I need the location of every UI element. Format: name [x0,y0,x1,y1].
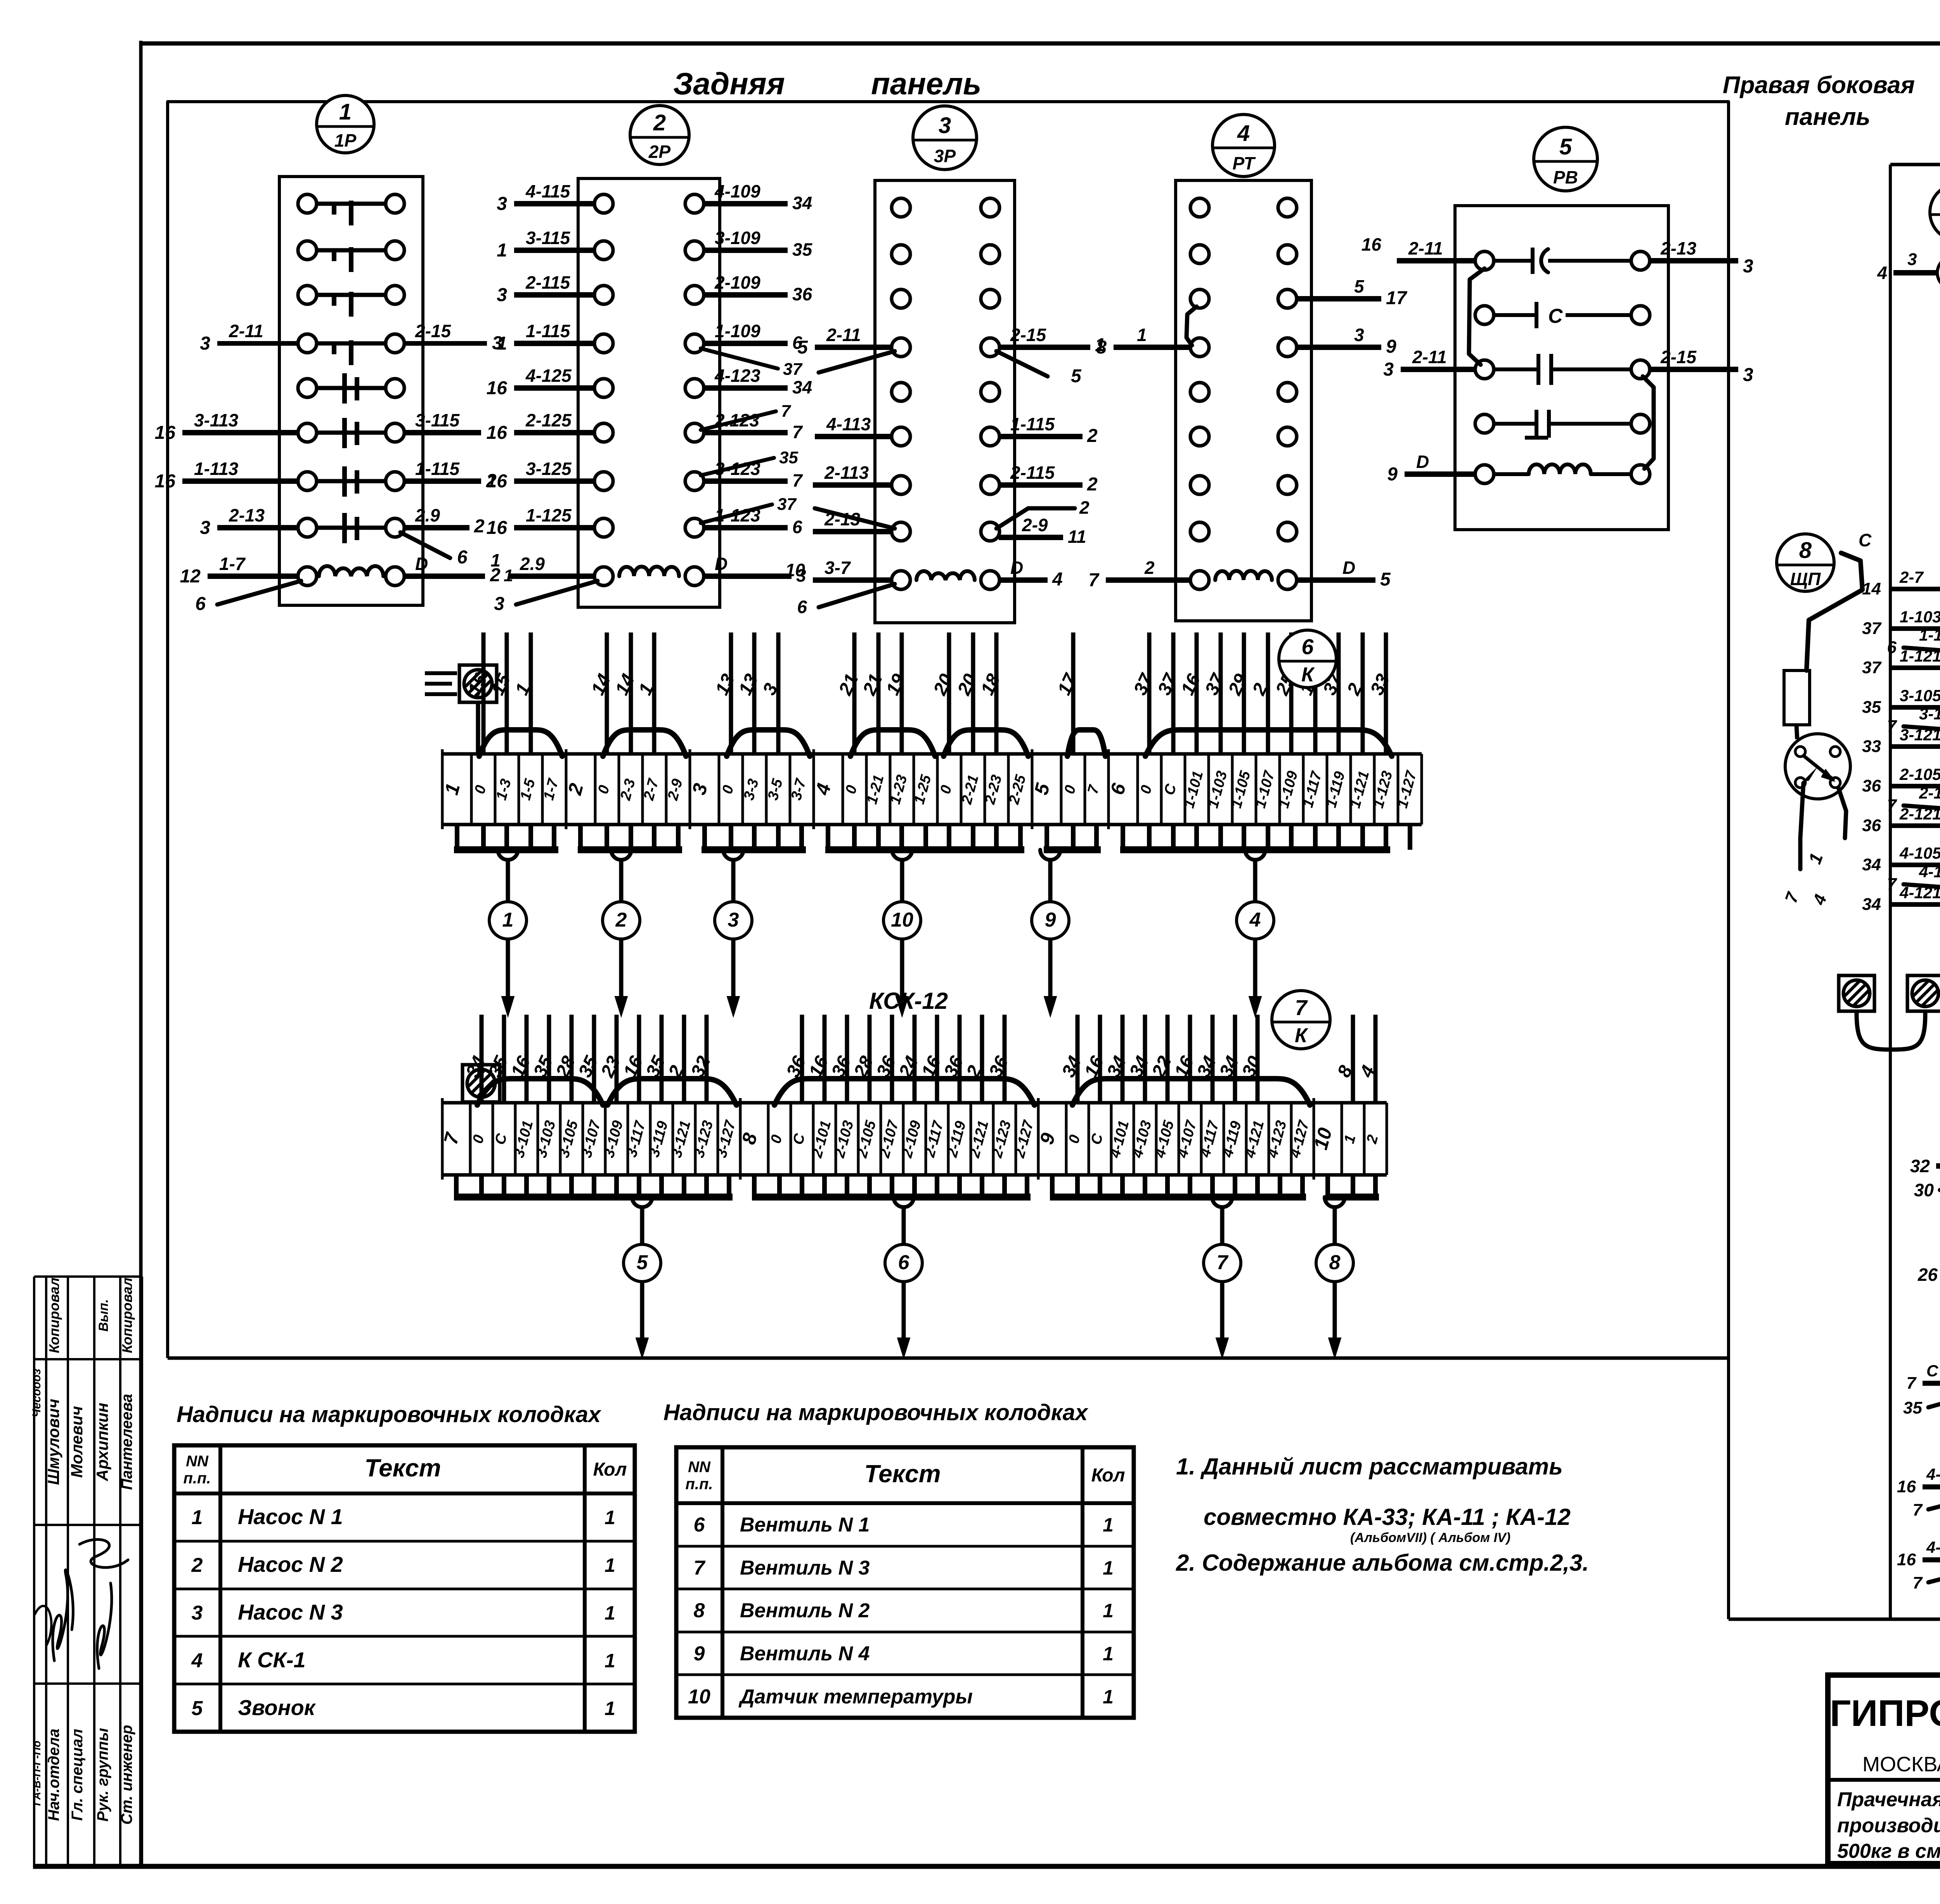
svg-text:Вентиль N 1: Вентиль N 1 [740,1514,870,1536]
svg-text:3: 3 [1907,250,1917,269]
svg-text:К: К [1295,1024,1308,1047]
svg-text:34: 34 [792,193,812,213]
svg-text:Гл. специал: Гл. специал [69,1729,86,1821]
svg-text:1: 1 [502,909,514,931]
svg-text:Задняя: Задняя [673,66,785,101]
svg-text:6: 6 [1887,638,1897,657]
svg-text:32: 32 [1910,1156,1930,1176]
svg-text:4-105: 4-105 [1899,844,1940,862]
svg-text:11: 11 [1068,527,1086,547]
svg-text:3: 3 [1743,365,1753,385]
svg-text:4: 4 [1877,263,1887,283]
svg-text:35: 35 [792,239,813,260]
svg-text:34: 34 [1862,895,1881,914]
svg-text:16: 16 [487,378,508,398]
svg-text:Прачечная спецодежды.: Прачечная спецодежды. [1837,1788,1940,1811]
svg-text:4: 4 [1052,569,1063,590]
svg-text:16: 16 [155,423,176,443]
svg-text:2-13: 2-13 [1660,238,1696,258]
svg-text:7: 7 [792,422,803,442]
svg-text:5: 5 [637,1251,648,1274]
svg-text:37: 37 [777,495,797,514]
svg-text:2Р: 2Р [648,142,671,162]
svg-text:1. Данный лист рассматривать: 1. Данный лист рассматривать [1176,1454,1563,1480]
svg-text:4-113: 4-113 [826,414,871,434]
svg-text:30: 30 [1914,1180,1934,1200]
svg-text:2-11: 2-11 [229,321,263,341]
svg-text:5: 5 [1559,134,1572,159]
svg-text:Текст: Текст [364,1454,441,1482]
svg-text:п.п.: п.п. [685,1476,713,1493]
svg-text:2: 2 [615,909,627,931]
svg-text:2: 2 [474,516,485,537]
svg-text:7: 7 [1913,1500,1923,1519]
svg-text:3: 3 [497,194,507,214]
svg-text:4: 4 [1237,121,1250,146]
svg-text:4: 4 [1249,909,1261,931]
svg-text:7: 7 [781,402,792,421]
svg-text:1: 1 [1103,1600,1114,1622]
svg-text:4-105: 4-105 [1926,1465,1940,1483]
svg-text:2-11: 2-11 [1412,347,1447,367]
svg-text:6: 6 [694,1514,705,1536]
svg-text:С: С [1926,1362,1938,1380]
svg-text:9: 9 [694,1642,705,1665]
svg-text:3-115: 3-115 [415,410,460,430]
svg-text:С: С [1548,305,1563,327]
svg-text:35: 35 [779,448,798,467]
svg-text:2-11: 2-11 [1408,238,1443,258]
svg-text:Вентиль N 3: Вентиль N 3 [740,1557,870,1579]
svg-text:2-115: 2-115 [1010,463,1055,483]
svg-text:26: 26 [1917,1265,1938,1285]
svg-text:3-115: 3-115 [526,228,571,248]
svg-text:4-121: 4-121 [1926,1538,1940,1556]
svg-text:РТ: РТ [1232,153,1256,173]
svg-text:1: 1 [605,1554,615,1576]
svg-text:1: 1 [605,1650,615,1672]
svg-text:2-11: 2-11 [826,325,861,345]
svg-text:16: 16 [487,471,508,492]
svg-text:3: 3 [939,113,951,138]
svg-text:Вентиль N 2: Вентиль N 2 [740,1599,870,1622]
svg-text:Рук. группы: Рук. группы [94,1728,111,1821]
svg-text:Копировал: Копировал [119,1278,135,1353]
svg-text:4-125: 4-125 [525,366,572,386]
svg-text:2: 2 [653,110,666,135]
svg-text:1: 1 [1103,1557,1114,1579]
svg-text:2-13: 2-13 [229,505,265,525]
svg-text:37: 37 [1862,619,1882,638]
svg-text:37: 37 [783,360,803,379]
svg-text:1-115: 1-115 [415,459,460,479]
svg-text:Насос N 3: Насос N 3 [238,1600,343,1624]
svg-text:14: 14 [1862,579,1881,598]
svg-text:7: 7 [1913,1573,1923,1592]
svg-text:п.п.: п.п. [183,1470,211,1487]
svg-text:6: 6 [1301,634,1314,659]
svg-text:5: 5 [1071,366,1082,386]
svg-text:производительностью: производительностью [1837,1814,1940,1837]
svg-text:7: 7 [792,470,803,490]
svg-text:1-109: 1-109 [715,321,760,341]
svg-text:NN: NN [186,1453,209,1470]
svg-text:3: 3 [494,594,504,614]
svg-text:5: 5 [1354,276,1365,296]
svg-text:панель: панель [871,66,981,101]
svg-text:1-125: 1-125 [526,505,572,525]
svg-text:D: D [1010,558,1023,578]
svg-text:Надписи на маркировочных колод: Надписи на маркировочных колодках [663,1400,1089,1425]
svg-text:Надписи на маркировочных колод: Надписи на маркировочных колодках [177,1402,602,1427]
svg-text:2-115: 2-115 [525,272,571,293]
svg-text:36: 36 [1862,776,1881,795]
svg-text:6: 6 [792,517,802,537]
svg-text:12: 12 [180,566,201,587]
svg-text:2-15: 2-15 [1660,347,1697,367]
svg-text:2: 2 [1079,497,1090,518]
svg-text:7: 7 [1887,875,1898,894]
svg-text:16: 16 [487,518,508,538]
svg-text:1: 1 [490,550,501,570]
svg-text:6: 6 [898,1251,910,1274]
svg-text:7: 7 [1217,1251,1229,1274]
svg-text:1: 1 [1137,325,1147,345]
svg-text:7: 7 [1887,717,1898,736]
svg-text:9: 9 [1045,909,1056,931]
svg-text:4-115: 4-115 [525,181,571,201]
svg-text:Правая боковая: Правая боковая [1723,72,1915,99]
svg-text:3-113: 3-113 [194,410,239,430]
svg-text:1: 1 [605,1507,615,1528]
svg-text:6: 6 [797,597,807,617]
svg-text:10: 10 [688,1686,710,1708]
svg-text:6: 6 [195,594,206,614]
svg-text:Шмулович: Шмулович [44,1399,62,1485]
svg-text:Звонок: Звонок [238,1695,316,1720]
svg-text:D: D [1342,558,1355,578]
svg-text:3-105: 3-105 [1900,686,1940,705]
svg-text:17: 17 [1386,288,1408,308]
svg-text:Вып.: Вып. [96,1299,111,1332]
svg-text:3: 3 [1354,325,1364,345]
svg-text:1: 1 [1103,1643,1114,1665]
svg-text:2-119: 2-119 [1919,784,1940,802]
svg-text:4-123: 4-123 [714,366,760,386]
svg-text:6: 6 [457,547,468,568]
svg-text:ЩП: ЩП [1790,569,1821,589]
svg-text:1-115: 1-115 [526,321,571,341]
svg-text:Насос N 1: Насос N 1 [238,1504,343,1529]
svg-text:Чесоооз: Чесоооз [30,1369,43,1417]
svg-text:7: 7 [1088,570,1100,591]
svg-text:2.9: 2.9 [415,505,440,525]
svg-text:7: 7 [1887,796,1898,815]
svg-text:8: 8 [694,1599,705,1622]
svg-text:Кол: Кол [1091,1465,1125,1486]
svg-text:К СК-1: К СК-1 [238,1648,306,1672]
svg-text:КСК-12: КСК-12 [869,988,948,1014]
svg-text:1: 1 [1103,1686,1114,1708]
svg-text:3: 3 [192,1602,203,1624]
svg-text:2-105: 2-105 [1899,765,1940,783]
svg-text:Копировал: Копировал [46,1278,62,1353]
svg-text:1: 1 [605,1602,615,1624]
svg-text:1: 1 [339,99,352,125]
svg-text:4-119: 4-119 [1919,863,1940,881]
svg-text:3: 3 [497,285,507,305]
svg-text:2: 2 [1087,426,1098,446]
svg-text:7: 7 [1295,995,1308,1020]
svg-text:К: К [1301,664,1315,686]
svg-text:(АльбомVII) ( Альбом IV): (АльбомVII) ( Альбом IV) [1350,1530,1510,1545]
svg-text:2: 2 [191,1554,203,1577]
svg-text:8: 8 [1329,1251,1341,1274]
svg-text:2-109: 2-109 [714,272,760,293]
svg-text:16: 16 [155,471,176,492]
svg-text:3-125: 3-125 [526,459,572,479]
svg-text:3: 3 [1743,256,1753,277]
svg-text:Пантелеева: Пантелеева [118,1394,135,1490]
svg-text:2: 2 [1144,558,1155,578]
svg-text:9: 9 [1386,336,1396,357]
svg-text:1: 1 [192,1506,203,1529]
svg-text:Кол: Кол [593,1459,627,1480]
svg-text:2: 2 [1087,474,1098,495]
svg-text:7: 7 [1907,1374,1917,1393]
svg-text:35: 35 [1862,698,1881,717]
svg-text:33: 33 [1862,737,1881,756]
svg-text:16: 16 [1361,234,1382,255]
svg-text:4-109: 4-109 [714,181,760,201]
svg-text:7: 7 [694,1557,706,1579]
svg-text:8: 8 [1799,538,1812,563]
svg-text:2-7: 2-7 [1899,568,1924,586]
svg-text:Молевич: Молевич [68,1406,86,1478]
svg-text:36: 36 [792,284,812,304]
svg-text:Нач.отдела: Нач.отдела [45,1729,62,1821]
svg-text:34: 34 [792,377,812,397]
svg-text:совместно КА-33; КА-11 ; КА-1: совместно КА-33; КА-11 ; КА-12 [1204,1504,1571,1530]
svg-text:35: 35 [1903,1398,1922,1417]
svg-text:2-125: 2-125 [525,410,572,430]
svg-text:3-109: 3-109 [715,228,760,248]
svg-text:2-15: 2-15 [415,321,451,341]
svg-text:36: 36 [1862,816,1881,835]
svg-text:37: 37 [1862,658,1882,677]
svg-text:2-113: 2-113 [824,463,869,483]
svg-text:16: 16 [487,423,508,443]
svg-text:D: D [415,554,428,574]
svg-text:10: 10 [891,909,913,931]
svg-text:МОСКВА: МОСКВА [1862,1753,1940,1776]
svg-text:2. Содержание альбома см.стр.: 2. Содержание альбома см.стр.2,3. [1176,1550,1589,1576]
svg-text:Датчик температуры: Датчик температуры [738,1686,973,1708]
svg-text:Насос N 2: Насос N 2 [238,1552,343,1577]
svg-text:1Р: 1Р [334,130,357,151]
svg-text:1: 1 [497,333,507,354]
svg-text:Текст: Текст [864,1460,941,1488]
svg-text:5: 5 [797,337,808,358]
svg-text:16: 16 [1897,1550,1916,1569]
svg-text:3: 3 [1383,359,1394,380]
svg-text:D: D [715,554,727,574]
svg-text:ГА-В-П-Г-По: ГА-В-П-Г-По [31,1741,43,1806]
svg-text:1: 1 [497,240,507,261]
svg-text:8: 8 [1096,337,1107,358]
svg-text:NN: NN [688,1459,711,1476]
svg-text:2-15: 2-15 [1010,325,1046,345]
svg-text:ГИПРОБЫТПРОМ: ГИПРОБЫТПРОМ [1830,1693,1940,1734]
svg-text:5: 5 [1380,569,1391,590]
svg-text:1-7: 1-7 [219,554,246,574]
svg-text:3-7: 3-7 [824,558,851,578]
svg-text:1-115: 1-115 [1010,414,1055,434]
svg-text:500кг в смену.: 500кг в смену. [1837,1840,1940,1862]
svg-text:1: 1 [1103,1514,1114,1536]
svg-text:1-113: 1-113 [194,459,239,479]
svg-text:4: 4 [191,1649,203,1672]
svg-text:панель: панель [1785,104,1870,130]
svg-text:Архипкин: Архипкин [93,1403,111,1481]
svg-text:1-103: 1-103 [1900,608,1940,626]
svg-text:Ст. инженер: Ст. инженер [118,1725,135,1824]
svg-text:1: 1 [605,1698,615,1719]
svg-text:D: D [1416,452,1429,472]
svg-text:3Р: 3Р [934,146,956,166]
svg-text:9: 9 [1387,464,1398,485]
svg-text:3: 3 [200,333,210,354]
svg-text:РВ: РВ [1553,167,1578,187]
svg-text:С: С [1859,530,1872,550]
svg-text:16: 16 [1897,1477,1916,1496]
svg-text:2.9: 2.9 [520,554,545,574]
svg-text:34: 34 [1862,855,1881,874]
svg-text:3: 3 [200,518,210,538]
svg-text:3: 3 [728,909,739,931]
svg-text:2-9: 2-9 [1022,515,1048,535]
svg-text:Вентиль N 4: Вентиль N 4 [740,1642,870,1665]
svg-text:10: 10 [785,560,805,580]
svg-text:1-119: 1-119 [1919,626,1940,644]
svg-text:5: 5 [192,1697,203,1720]
svg-text:3-119: 3-119 [1919,705,1940,723]
